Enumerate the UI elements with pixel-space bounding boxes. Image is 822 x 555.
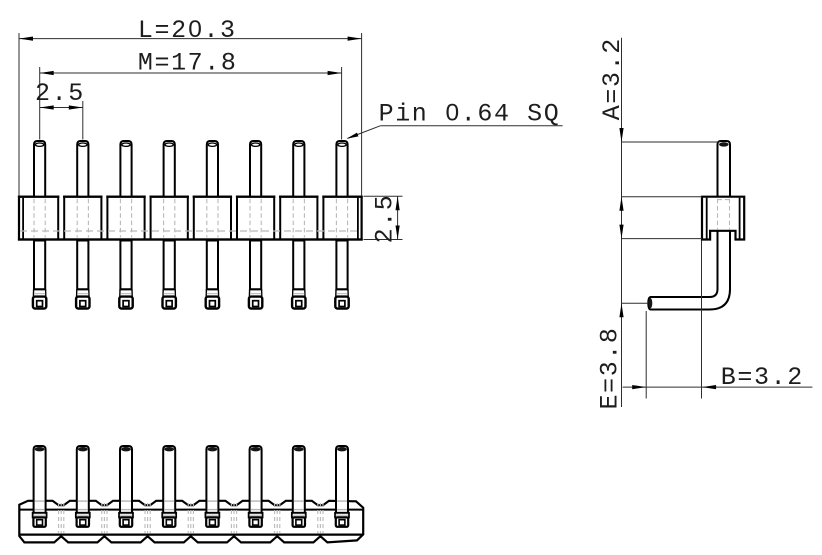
B dimension extension lines (646, 241, 701, 399)
body top and bottom edges (front view) (18, 197, 363, 240)
side dimension main line (621, 38, 623, 407)
dimension 2.5 pitch extension line (82, 101, 84, 140)
pins below body columns (front view) (34, 241, 348, 290)
body front-top edge line (bottom view) (19, 509, 363, 511)
dimension text A=3.2 (rotated) (598, 37, 627, 120)
dimension text L=20.3 (138, 16, 237, 45)
svg-text:B=3.2: B=3.2 (721, 363, 804, 392)
dimension text B=3.2 (721, 363, 804, 392)
dimension 2.5 height line (396, 196, 400, 239)
arrow below body top (619, 197, 623, 211)
pins with square tips (bottom view) (33, 446, 349, 527)
svg-text:2.5: 2.5 (35, 79, 85, 108)
dimension L=20.3 line (19, 37, 362, 41)
arrow at pin top level (619, 128, 623, 142)
arrow above body bottom (619, 225, 623, 239)
dimension 2.5 pitch line (40, 105, 83, 109)
svg-text:L=20.3: L=20.3 (138, 16, 237, 45)
dimension L=20.3 extension lines (19, 33, 362, 196)
segment joint lines (front view) (58, 195, 323, 238)
pins above body (front view) (34, 141, 348, 197)
B dimension line (623, 385, 813, 389)
svg-text:E=3.8: E=3.8 (596, 326, 625, 409)
hidden pin lines inside body (side view) (718, 199, 731, 230)
header body outline with notches (bottom view) (19, 501, 363, 543)
dimension M=17.8 extension lines (40, 67, 342, 140)
right-angle bent pin (side view) (648, 141, 730, 310)
dimension M=17.8 line (40, 71, 342, 75)
hidden segment joint lines (bottom view) (59, 503, 323, 533)
svg-text:2.5: 2.5 (371, 194, 400, 244)
callout text Pin 0.64 SQ (379, 100, 561, 129)
svg-text:A=3.2: A=3.2 (598, 37, 627, 120)
dimension 2.5 height extension lines (364, 196, 403, 239)
extension line body bottom level (622, 238, 703, 240)
header body (side view) (702, 197, 744, 240)
dimension text E=3.8 (rotated) (596, 326, 625, 409)
arrow at pin tip level (619, 303, 623, 317)
body left rim line (front view) (22, 198, 24, 239)
extension line pin top level (622, 141, 720, 143)
svg-text:M=17.8: M=17.8 (138, 48, 238, 77)
pins square tip ends (front view) (33, 289, 349, 308)
svg-text:Pin 0.64 SQ: Pin 0.64 SQ (379, 100, 561, 129)
body right rim line (front view) (357, 198, 359, 239)
leader line Pin 0.64 SQ (347, 126, 563, 139)
hidden pin lines and centerline inside body (front view) (20, 199, 361, 238)
dimension text M=17.8 (138, 48, 238, 77)
dimension text 2.5 height (rotated) (371, 194, 400, 244)
body bottom edge line (bottom view) (19, 533, 363, 535)
header body (front view) (19, 197, 362, 240)
extension line body top level (622, 196, 703, 198)
extension line pin tip level (622, 302, 648, 304)
dimension text 2.5 pitch (35, 79, 85, 108)
